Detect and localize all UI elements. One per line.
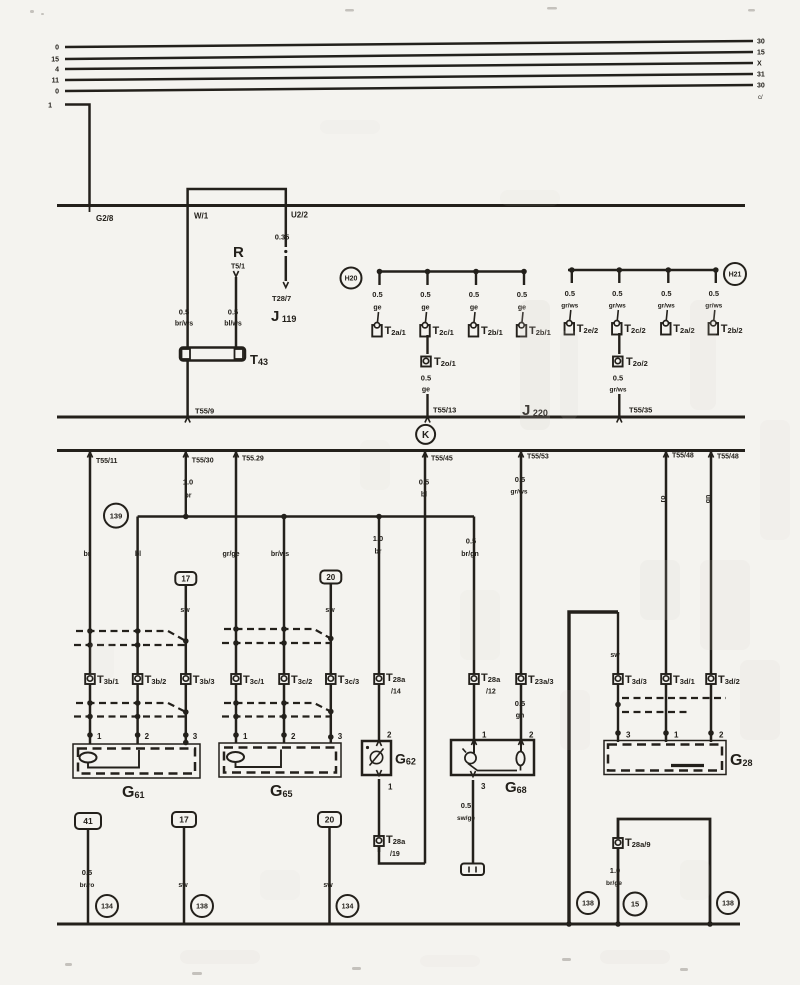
node T55/30 [183,452,188,458]
svg-text:0.5: 0.5 [515,475,525,484]
wire T55/45 bl riser [424,451,427,864]
wire G68 pin3 to ground [472,780,475,863]
svg-text:134: 134 [342,904,354,911]
svg-text:1.0: 1.0 [610,866,620,875]
wire 41 to ground line [87,829,90,924]
svg-text:G61: G61 [122,784,144,801]
ground node 134 [96,895,118,917]
wire T55/11 to G61 pin1 [89,451,92,745]
current track 17 lower [172,812,196,827]
svg-text:T3b/3: T3b/3 [193,674,215,686]
wire shield dash upper G65 [224,629,331,639]
pin 2 G62 [376,741,381,747]
wire drop T2c/1 [426,272,428,286]
svg-text:T55/48: T55/48 [672,453,694,460]
wire to T55/13 [426,394,428,417]
pin 3 G65 [328,734,334,740]
wire bus to G65 pin2 [283,517,286,744]
wire bus terminal rail 31 [65,74,753,80]
node junction rail [713,267,719,273]
svg-text:0.5: 0.5 [515,699,525,708]
svg-text:K: K [422,430,430,441]
ground node 15 [624,893,647,916]
svg-text:T2o/2: T2o/2 [626,356,648,368]
node junction rail [617,267,623,273]
svg-text:gr/ws: gr/ws [561,303,578,310]
node junction T55/30 [183,514,189,520]
wire bus to G68 pin1 [473,517,476,741]
svg-text:T3d/3: T3d/3 [625,674,647,686]
wire shield dash upper G61 [76,631,186,641]
wire drop T2c/2 [618,270,620,283]
svg-text:gr/ws: gr/ws [609,303,626,310]
svg-text:138: 138 [582,901,594,908]
wire hook [522,312,523,322]
svg-text:G28: G28 [730,752,752,769]
svg-text:T2c/1: T2c/1 [433,325,454,337]
wire trunk to G28 pin3 [569,612,618,924]
svg-text:br/ws: br/ws [175,321,193,328]
ground node 138 right [717,892,739,914]
svg-text:/19: /19 [390,851,400,858]
svg-text:ge: ge [470,305,478,312]
svg-text:0.5: 0.5 [461,801,471,810]
pin 1 G65 [233,732,239,738]
svg-text:T28a/9: T28a/9 [625,837,651,849]
pin 1 G61 [87,732,93,738]
wire hook [474,312,475,322]
connector T3d/1 [661,674,671,684]
wire T43 to T55/9 [186,361,189,417]
connector T23a/3 [516,674,526,684]
wire T55.29 to G65 pin1 [235,451,238,744]
wire drop T2a/1 [378,272,380,286]
connector T2q/2 [613,357,623,367]
wire ground bus bottom [57,923,740,926]
ground node 134 second [337,895,359,917]
svg-text:0.5: 0.5 [421,374,431,383]
svg-text:T55/11: T55/11 [96,458,118,465]
node junction rail [569,267,575,273]
pin 3 G28 [615,730,621,736]
current track 20 lower [318,812,341,827]
ground strap [461,864,484,876]
svg-text:20: 20 [326,573,335,582]
svg-text:T2o/1: T2o/1 [434,356,456,368]
svg-text:T3c/1: T3c/1 [243,674,264,686]
svg-text:gr/ws: gr/ws [511,489,528,496]
svg-text:11: 11 [52,78,60,85]
svg-text:br: br [375,549,382,556]
connector T3c/3 [326,674,336,684]
svg-text:sw: sw [323,882,333,889]
svg-text:T55/9: T55/9 [195,407,214,416]
svg-text:sw: sw [180,607,190,614]
node T55.29 [233,452,238,458]
svg-text:H20: H20 [345,276,358,283]
svg-text:bl/ws: bl/ws [224,321,242,328]
wire main bus line A [57,204,745,207]
wire shield dash G28 [622,697,726,699]
pin 1 G28 [663,730,669,736]
svg-text:3: 3 [626,731,631,740]
svg-text:0: 0 [55,89,59,96]
wire control-unit bus line B [57,416,745,419]
svg-text:T28a: T28a [386,672,406,684]
connector T2e/2 [565,323,575,335]
svg-text:R: R [233,244,244,261]
svg-text:1.0: 1.0 [373,534,383,543]
svg-text:3: 3 [481,782,486,791]
svg-text:T28/7: T28/7 [272,294,291,303]
svg-text:2: 2 [291,732,296,741]
wire 20 to ground line [328,827,331,924]
svg-text:T55/35: T55/35 [629,406,652,415]
svg-text:T3d/1: T3d/1 [673,674,695,686]
pin 2 G28 [708,730,714,736]
svg-text:ro: ro [660,496,667,503]
svg-text:G68: G68 [505,779,527,796]
node junction rail [377,269,383,275]
svg-text:0.5: 0.5 [372,290,382,299]
svg-text:2: 2 [719,731,724,740]
wire R to T43 [233,271,238,277]
current track 41 [75,813,101,829]
svg-text:br/gn: br/gn [461,551,479,558]
svg-text:gn: gn [516,713,525,720]
svg-text:0.5: 0.5 [613,374,623,383]
node junction rail [521,269,527,275]
wire T2c/1 to T2o/1 [426,335,428,354]
connector T28a/19 [374,836,384,846]
svg-text:17: 17 [181,575,190,584]
sensor G65 box [219,743,341,777]
svg-text:br/ro: br/ro [80,882,95,889]
wire U2/2 drop [285,206,288,248]
wire drop T2b/2 [715,270,717,283]
svg-text:0.5: 0.5 [565,289,575,298]
svg-text:0: 0 [55,45,59,52]
svg-text:1: 1 [674,731,679,740]
wire drop T2b/1 [475,272,477,286]
wire T55/53 to G68 pin2 [520,451,523,741]
svg-text:G65: G65 [270,783,292,800]
svg-text:br/ws: br/ws [271,551,289,558]
connector T3d/2 [706,674,716,684]
wire T55/48 to G28 pin2 [710,451,713,743]
svg-text:T28a: T28a [386,834,406,846]
svg-text:bl: bl [421,492,427,499]
ground node 138 [191,895,213,917]
decor scan smudges [520,300,550,430]
wire hook [617,310,618,320]
svg-text:T2c/2: T2c/2 [624,323,645,335]
svg-text:0.5: 0.5 [469,290,479,299]
svg-text:15: 15 [51,57,59,64]
svg-text:sw: sw [610,652,620,659]
wire hook [714,310,715,320]
svg-text:T3c/2: T3c/2 [291,674,312,686]
svg-text:br: br [185,493,192,500]
wire control-unit bus line C [57,449,745,452]
wire drop T2e/2 [571,270,573,283]
node T55/11 [87,452,92,458]
node K [416,425,435,444]
svg-text:ge: ge [422,387,430,394]
svg-text:134: 134 [101,904,113,911]
connector T2b/1 [469,325,479,337]
svg-text:20: 20 [325,815,335,825]
wire hook [666,310,667,320]
connector T3b/1 [85,674,95,684]
svg-text:1: 1 [243,732,248,741]
svg-text:T23a/3: T23a/3 [528,674,554,686]
svg-text:1: 1 [97,732,102,741]
wire to bl riser [379,846,425,864]
wire T2c/2 to T2q/2 [618,333,620,354]
svg-text:T55/48: T55/48 [717,454,739,461]
connector T3b/2 [133,674,143,684]
horn H20 [341,268,362,289]
node T55/48 [708,452,713,458]
node T55/45 [422,452,427,458]
svg-text:4: 4 [55,67,59,74]
wire H21 rail [568,269,717,272]
svg-text:gr/ge: gr/ge [222,551,239,558]
wire drop T2a/2 [667,270,669,283]
svg-text:G62: G62 [395,751,416,767]
svg-text:2: 2 [529,731,534,740]
svg-text:U2/2: U2/2 [291,211,308,220]
svg-text:ge: ge [373,305,381,312]
svg-text:T2b/1: T2b/1 [481,325,503,337]
node 139 [104,504,128,528]
wire hook [378,312,379,322]
horn H21 [724,263,746,285]
wire T55/48 to G28 pin1 [665,451,668,743]
svg-text:J 119: J 119 [271,308,296,325]
node junction rail [666,267,672,273]
wire G62 pin1 down [378,779,381,852]
component shunt box on bus [188,189,286,206]
svg-text:0.5: 0.5 [419,478,429,487]
wire drop T2b/1 [523,272,525,286]
wire shield dash lower G65 [224,703,331,712]
connector T2b/1 [517,325,527,337]
svg-text:G2/8: G2/8 [96,214,114,223]
wire bus terminal rail 15 [65,52,753,59]
pin 2 G65 [281,732,287,738]
connector T3c/1 [231,674,241,684]
sensor G62 box [362,741,391,775]
wire H20 rail [377,270,525,273]
svg-text:0.5: 0.5 [228,308,238,317]
node junction shield [615,702,621,708]
connector T3d/3 [613,674,623,684]
current track 20 [320,571,341,584]
svg-text:3: 3 [193,732,198,741]
svg-text:1: 1 [388,783,393,792]
svg-text:0.5: 0.5 [466,537,476,546]
svg-text:17: 17 [179,815,189,825]
svg-text:0.5: 0.5 [517,290,527,299]
sensor G28 box [604,741,726,775]
connector T3b/3 [181,674,191,684]
svg-text:3: 3 [338,732,343,741]
svg-text:T5/1: T5/1 [231,264,245,271]
svg-text:T55.29: T55.29 [242,456,264,463]
svg-text:15: 15 [757,50,765,57]
svg-text:X: X [757,61,762,68]
svg-text:30: 30 [757,83,765,90]
svg-text:138: 138 [196,904,208,911]
svg-text:T3c/3: T3c/3 [338,674,359,686]
pin 3 G61 [183,732,189,738]
wire 139 bus to G61 pin2 [136,517,139,745]
pin 3 G68 [470,771,475,777]
svg-text:T43: T43 [250,352,268,367]
svg-text:0.5: 0.5 [709,289,719,298]
sensor G61 box [73,744,200,778]
wire down to T3d/3 [617,612,619,742]
wire bus to T28a/14 [378,517,381,742]
svg-text:T2e/2: T2e/2 [577,323,598,335]
svg-text:gn: gn [705,495,712,504]
pin 1 G62 [376,770,381,776]
wire hook [426,312,427,322]
svg-text:2: 2 [387,731,392,740]
svg-text:31: 31 [757,72,765,79]
svg-text:T2b/2: T2b/2 [721,323,743,335]
svg-text:T55/13: T55/13 [433,406,456,415]
current track 17 [175,572,196,585]
node T55/48 [663,452,668,458]
wire 17 to ground line [183,827,186,924]
svg-text:41: 41 [83,816,93,826]
wire bus terminal rail 30 [65,41,753,47]
wire ground bus 139 [138,515,474,518]
wire T55/30 stub [185,451,187,517]
wire to T55/35 [618,394,620,417]
wire sw to G65 pin3 [330,584,333,744]
node T55/53 [518,452,523,458]
svg-text:ge: ge [421,305,429,312]
svg-text:15: 15 [631,900,639,909]
wire sw to G61 pin3 [185,585,188,744]
connector T2c/1 [420,325,430,337]
svg-text:T28a: T28a [481,672,501,684]
svg-text:sw: sw [178,882,188,889]
connector T28a/14 [374,674,384,684]
svg-text:sw/ge: sw/ge [457,815,475,822]
wire hook [570,310,571,320]
svg-text:/14: /14 [391,689,401,696]
svg-text:0.5: 0.5 [612,289,622,298]
connector T2c/2 [612,323,622,335]
svg-text:30: 30 [757,39,765,46]
wire bus terminal rail X [65,63,753,69]
pin 2 G61 [135,732,141,738]
svg-text:br/ge: br/ge [606,880,622,887]
connector T3c/2 [279,674,289,684]
svg-text:0.5: 0.5 [82,868,92,877]
connector T2a/2 [661,323,671,335]
connector T2o/1 [421,357,431,367]
svg-text:0.5: 0.5 [179,308,189,317]
svg-text:H21: H21 [729,272,742,279]
svg-text:T3b/2: T3b/2 [145,674,167,686]
svg-text:T3d/2: T3d/2 [718,674,740,686]
svg-text:T55/45: T55/45 [431,456,453,463]
connector T2b/2 [709,323,719,335]
svg-text:T55/30: T55/30 [192,458,214,465]
pin 2 G68 [518,740,523,746]
connector T2a/1 [372,325,382,337]
wire T28a/9 loop [618,819,710,924]
svg-text:c/: c/ [758,95,763,101]
connector T43 [180,348,245,361]
node junction G62-2 [376,514,382,520]
svg-text:gr/ws: gr/ws [610,387,627,394]
svg-text:1.0: 1.0 [183,478,193,487]
svg-text:/12: /12 [486,689,496,696]
svg-text:gr/ws: gr/ws [658,303,675,310]
svg-text:139: 139 [110,511,123,520]
wire W/1 to T43 [186,206,189,349]
sensor G68 box [451,740,534,775]
node junction G65-2 [281,514,287,520]
svg-text:2: 2 [145,732,150,741]
node junction rail [425,269,431,275]
svg-text:1: 1 [482,731,487,740]
svg-text:0.35: 0.35 [275,233,290,242]
svg-text:138: 138 [722,901,734,908]
svg-text:bl: bl [135,551,141,558]
svg-text:1: 1 [48,103,52,110]
svg-text:sw: sw [325,607,335,614]
wire shield dash lower G61 [76,703,186,712]
pin 1 G68 [471,740,476,746]
svg-text:0.5: 0.5 [661,289,671,298]
node junction rail [473,269,479,275]
wire bus terminal rail 30 [65,85,753,91]
svg-text:br: br [84,551,91,558]
ground node 138 trunk [577,892,599,914]
connector T28a/12 [469,674,479,684]
svg-text:T55/53: T55/53 [527,454,549,461]
wire break J119 [284,250,287,253]
svg-text:W/1: W/1 [194,212,209,221]
svg-text:T2a/1: T2a/1 [385,325,406,337]
svg-text:0.5: 0.5 [420,290,430,299]
connector T28a/9 [613,838,623,848]
